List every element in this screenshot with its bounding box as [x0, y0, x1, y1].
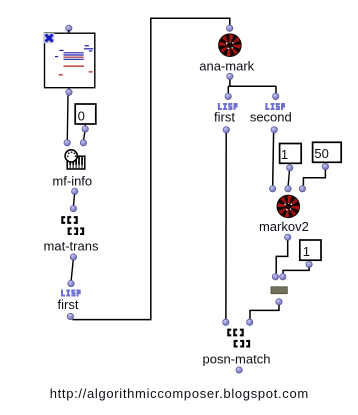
svg-text:first: first	[214, 110, 235, 125]
wire mf-info to mat-trans	[74, 195, 75, 206]
svg-text:posn-match: posn-match	[203, 352, 271, 367]
mf-info input ball 2	[80, 140, 86, 146]
wire box1 to markov2	[288, 171, 289, 185]
ana-mark input ball	[227, 25, 233, 31]
lisp-box first2 logo	[218, 103, 238, 110]
wire 0 box to mf-info	[84, 132, 85, 139]
markov2 input ball 3	[299, 186, 305, 192]
wire box1b to patch box	[283, 268, 309, 274]
posn-match icon	[228, 330, 249, 347]
midi-file input ball	[66, 25, 72, 31]
posn-match input ball 2	[247, 319, 253, 325]
posn-match output ball	[236, 367, 242, 373]
midi-file box	[45, 33, 95, 87]
svg-text:markov2: markov2	[259, 219, 309, 234]
posn-match input ball 1	[223, 319, 229, 325]
mf-info icon (midi plug + keyboard)	[65, 150, 85, 169]
svg-text:1: 1	[303, 244, 310, 259]
wire first2 to posn-match	[225, 133, 227, 319]
lisp-box first2 output ball	[223, 127, 229, 133]
mat-trans icon	[62, 217, 83, 234]
lisp-box first logo	[61, 290, 81, 297]
wire ball to midi box	[68, 30, 70, 33]
wire mat-trans to lisp first	[71, 260, 73, 280]
lisp-box first2 input ball	[225, 93, 231, 99]
markov2 input ball 1	[269, 186, 275, 192]
number box 1b output ball	[308, 260, 310, 262]
mf-info output ball	[72, 188, 78, 194]
number box 50 output ball	[324, 162, 326, 164]
wire patch box to posn-match	[250, 305, 279, 319]
patch box output ball	[276, 299, 282, 305]
svg-text:first: first	[58, 297, 79, 312]
wire box50 to markov2	[303, 170, 325, 186]
wire ana-mark to first and second	[228, 80, 276, 94]
wire midi box to mf-info	[66, 96, 69, 140]
svg-text:0: 0	[78, 108, 85, 123]
ana-mark icon	[218, 33, 242, 57]
number box 0	[75, 104, 96, 124]
mat-trans input ball	[70, 205, 76, 211]
midi-file close icon (blue X)	[44, 33, 54, 43]
svg-text:mat-trans: mat-trans	[44, 239, 99, 254]
markov2 input ball 2	[285, 186, 291, 192]
markov2 icon	[277, 195, 301, 219]
svg-text:http://algorithmiccomposer.blo: http://algorithmiccomposer.blogspot.com	[50, 386, 309, 401]
lisp-box second output ball	[271, 127, 277, 133]
svg-text:1: 1	[281, 147, 288, 162]
number box 1 output ball	[289, 163, 291, 166]
markov2 output ball	[285, 234, 291, 240]
midi-file output ball	[68, 88, 70, 90]
svg-text:second: second	[250, 110, 292, 125]
wire markov2 to patch box	[276, 241, 288, 274]
wire second to markov2	[272, 133, 275, 185]
svg-text:50: 50	[314, 146, 328, 161]
svg-text:mf-info: mf-info	[52, 174, 92, 189]
lisp-box second input ball	[273, 93, 279, 99]
lisp-box first output ball	[67, 313, 73, 319]
patch box input ball 2	[280, 274, 286, 280]
number box 1	[280, 144, 302, 164]
number box 0 output ball	[84, 124, 86, 127]
number box 50	[313, 142, 342, 162]
wire first to ana-mark	[73, 18, 230, 319]
mf-info input ball 1	[64, 140, 70, 146]
patch box input ball 1	[272, 274, 278, 280]
ana-mark output ball	[227, 73, 233, 79]
mat-trans output ball	[70, 254, 76, 260]
patch box (olive rectangle)	[271, 287, 287, 294]
number box 1b	[300, 240, 321, 260]
lisp-box second logo	[265, 103, 285, 110]
svg-text:ana-mark: ana-mark	[199, 59, 254, 74]
lisp-box first input ball	[68, 280, 74, 286]
